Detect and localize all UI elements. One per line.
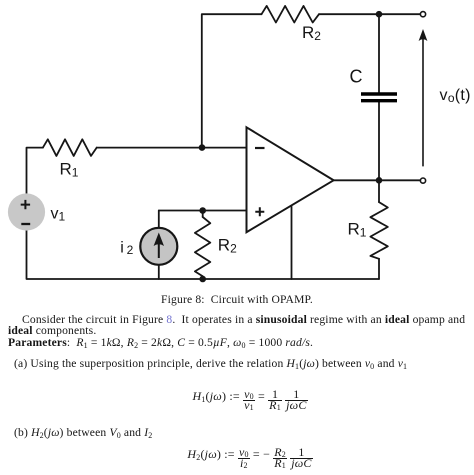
wire: op-amp output — [334, 179, 421, 181]
terminal: output bottom — [420, 178, 425, 183]
wire: op-amp ground leg — [291, 207, 293, 279]
wire: R1 right bottom stub — [378, 259, 380, 279]
source v1 — [8, 193, 45, 230]
wire: top rail right to output terminal — [319, 13, 420, 15]
vo(t) measurement arrow — [419, 29, 428, 166]
wire: R1 right to inverting input — [97, 147, 247, 149]
equation H1 — [13, 389, 474, 409]
op-amp U1 — [247, 127, 334, 232]
resistor R2 (bottom, vertical) — [195, 217, 210, 276]
paragraph line 2 — [8, 325, 96, 337]
node: R2/C top junction — [376, 11, 383, 18]
wire: v1 top to R1 left — [27, 148, 43, 194]
capacitor C plates — [361, 94, 397, 101]
paragraph line 1 — [22, 314, 465, 326]
node: output junction — [376, 177, 383, 184]
wire: R1 right top stub — [378, 180, 380, 202]
node: non-inverting input junction — [199, 207, 206, 214]
figure caption — [0, 294, 474, 306]
svg-text:i2: i2 — [120, 240, 133, 258]
wire: left vertical feedback + top rail left stub — [202, 14, 262, 147]
svg-text:v1: v1 — [51, 206, 66, 224]
node: inverting input junction — [199, 144, 206, 151]
item (a) — [14, 358, 407, 370]
equation H2 — [13, 447, 474, 467]
svg-text:R1: R1 — [348, 220, 367, 240]
resistor R1 (left, horizontal) — [43, 139, 97, 156]
wire: v1 bottom + ground rail — [27, 231, 380, 279]
svg-text:R2: R2 — [218, 236, 237, 256]
wire: capacitor top branch — [378, 14, 380, 92]
wire: i2 top stub — [158, 211, 160, 228]
wire: capacitor bottom branch — [378, 102, 380, 180]
svg-text:vo(t): vo(t) — [440, 87, 471, 105]
wire: R2 bottom lower stub — [202, 276, 204, 279]
svg-text:R2: R2 — [302, 23, 321, 43]
item (b) — [14, 427, 152, 439]
circuit schematic figure — [0, 0, 474, 292]
node: R2 bottom ground junction — [199, 276, 206, 283]
wire: non-inverting input — [159, 210, 247, 212]
terminal: output top — [420, 12, 425, 17]
resistor R2 (top, horizontal) — [262, 6, 320, 23]
parameters line — [8, 337, 313, 349]
resistor R1 (right, vertical) — [370, 202, 387, 259]
source i2 — [140, 228, 177, 265]
svg-text:R1: R1 — [60, 160, 79, 180]
wire: R2 bottom top stub — [202, 211, 204, 218]
wire: i2 bottom stub — [158, 265, 160, 279]
svg-text:C: C — [350, 67, 363, 87]
